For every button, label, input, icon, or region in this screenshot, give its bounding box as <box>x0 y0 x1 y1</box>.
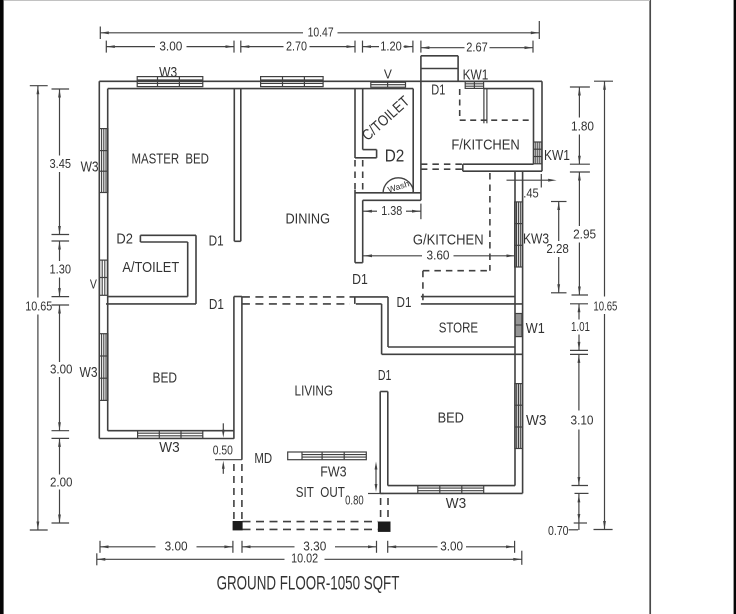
svg-text:KW3: KW3 <box>523 230 549 247</box>
svg-text:BED: BED <box>153 369 178 386</box>
svg-text:W3: W3 <box>81 158 99 175</box>
svg-text:.45: .45 <box>523 187 539 201</box>
svg-text:0.70: 0.70 <box>548 524 569 538</box>
svg-text:10.02: 10.02 <box>291 552 318 566</box>
svg-text:D1: D1 <box>209 296 224 313</box>
svg-text:W3: W3 <box>159 64 177 81</box>
svg-text:V: V <box>90 277 97 292</box>
svg-text:1.30: 1.30 <box>50 263 72 277</box>
svg-text:W1: W1 <box>526 320 545 337</box>
svg-text:2.70: 2.70 <box>286 39 307 53</box>
svg-text:1.38: 1.38 <box>381 204 402 218</box>
svg-text:G/KITCHEN: G/KITCHEN <box>413 232 484 249</box>
svg-text:MD: MD <box>254 450 272 467</box>
svg-text:2.00: 2.00 <box>50 475 73 489</box>
svg-text:2.28: 2.28 <box>546 242 569 256</box>
svg-text:3.00: 3.00 <box>440 539 463 553</box>
svg-text:GROUND FLOOR-1050 SQFT: GROUND FLOOR-1050 SQFT <box>217 572 400 594</box>
svg-text:10.47: 10.47 <box>308 26 334 40</box>
svg-text:1.80: 1.80 <box>571 120 594 134</box>
svg-text:F/KITCHEN: F/KITCHEN <box>451 137 519 154</box>
svg-text:KW1: KW1 <box>544 147 570 164</box>
svg-text:3.60: 3.60 <box>427 249 450 263</box>
svg-text:W3: W3 <box>80 364 98 381</box>
svg-text:D1: D1 <box>431 82 445 99</box>
svg-text:KW1: KW1 <box>463 67 489 84</box>
svg-text:LIVING: LIVING <box>295 382 334 399</box>
svg-text:V: V <box>384 66 392 81</box>
svg-text:3.10: 3.10 <box>571 414 594 428</box>
svg-text:3.00: 3.00 <box>165 540 188 554</box>
svg-text:2.95: 2.95 <box>573 228 596 242</box>
svg-text:MASTER BED: MASTER BED <box>131 150 209 167</box>
svg-text:3.00: 3.00 <box>159 39 182 53</box>
svg-text:D1: D1 <box>397 294 412 311</box>
svg-text:0.80: 0.80 <box>345 493 364 507</box>
svg-text:BED: BED <box>438 409 464 426</box>
svg-text:W3: W3 <box>526 412 546 429</box>
svg-text:DINING: DINING <box>286 211 331 228</box>
svg-text:3.45: 3.45 <box>50 157 72 171</box>
svg-text:D2: D2 <box>385 145 405 165</box>
svg-text:W3: W3 <box>446 495 466 512</box>
svg-text:10.65: 10.65 <box>25 300 52 314</box>
svg-text:0.50: 0.50 <box>213 444 233 458</box>
svg-text:D1: D1 <box>378 367 392 384</box>
svg-text:STORE: STORE <box>439 319 478 336</box>
svg-text:D1: D1 <box>352 271 368 288</box>
svg-text:3.00: 3.00 <box>50 363 73 377</box>
svg-text:D2: D2 <box>116 231 133 248</box>
svg-text:A/TOILET: A/TOILET <box>122 259 179 276</box>
svg-text:FW3: FW3 <box>320 463 346 480</box>
svg-text:10.65: 10.65 <box>593 299 617 313</box>
svg-text:1.01: 1.01 <box>571 320 590 334</box>
svg-text:W3: W3 <box>159 439 179 456</box>
svg-text:2.67: 2.67 <box>466 41 488 55</box>
svg-text:1.20: 1.20 <box>380 39 402 53</box>
svg-text:SIT OUT: SIT OUT <box>296 484 345 501</box>
svg-text:D1: D1 <box>209 233 224 250</box>
